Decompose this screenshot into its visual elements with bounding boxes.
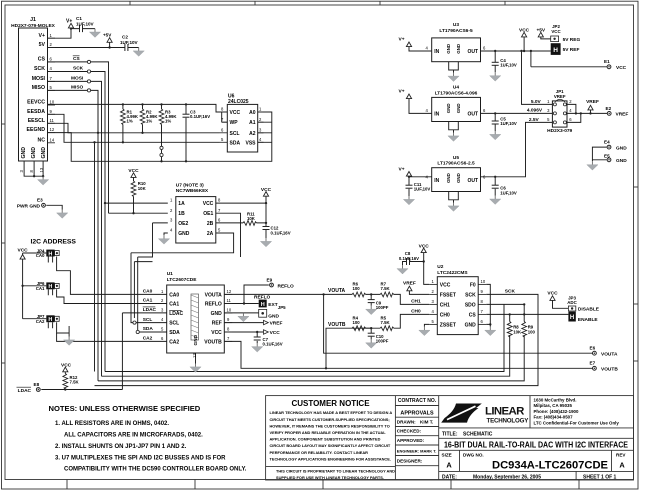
svg-text:VREF: VREF [616, 112, 629, 118]
svg-text:NOTES: UNLESS OTHERWISE SPECI: NOTES: UNLESS OTHERWISE SPECIFIED [49, 404, 201, 413]
svg-text:THIS CIRCUIT IS PROPRIETARY TO: THIS CIRCUIT IS PROPRIETARY TO LINEAR TE… [276, 468, 395, 473]
svg-text:E7: E7 [590, 361, 596, 366]
svg-text:100PF: 100PF [376, 305, 389, 310]
svg-text:10K: 10K [513, 329, 522, 334]
svg-text:7.5K: 7.5K [381, 286, 391, 291]
svg-text:ADC: ADC [567, 300, 577, 305]
svg-text:MISO: MISO [32, 85, 45, 91]
svg-text:2B: 2B [207, 221, 214, 227]
svg-text:CUSTOMER NOTICE: CUSTOMER NOTICE [291, 399, 370, 408]
svg-text:VCC: VCC [211, 330, 222, 336]
svg-text:1%: 1% [127, 119, 133, 124]
svg-text:VREF: VREF [270, 321, 283, 327]
svg-text:LT1790ACS6-2.5: LT1790ACS6-2.5 [437, 161, 475, 167]
svg-text:OUT: OUT [467, 111, 478, 117]
svg-text:VCC: VCC [270, 330, 281, 336]
svg-text:MOSI: MOSI [71, 76, 84, 82]
svg-text:V+: V+ [399, 166, 405, 172]
svg-text:1UF,10V: 1UF,10V [500, 190, 517, 195]
svg-text:LDAC: LDAC [18, 388, 32, 394]
svg-text:FSSET: FSSET [440, 292, 456, 298]
svg-text:CA0: CA0 [36, 253, 45, 258]
svg-text:WP: WP [230, 120, 239, 126]
svg-text:E1: E1 [604, 59, 610, 64]
svg-text:PWR GND: PWR GND [17, 203, 41, 209]
svg-text:VOUTB: VOUTB [328, 322, 346, 328]
svg-text:ENABLE: ENABLE [578, 317, 599, 323]
svg-text:0.1UF,16V: 0.1UF,16V [271, 230, 291, 235]
svg-text:12: 12 [50, 127, 55, 132]
svg-text:100: 100 [528, 329, 536, 334]
svg-text:GND: GND [616, 145, 627, 151]
svg-text:GND: GND [21, 147, 27, 159]
svg-text:DWG NO.: DWG NO. [463, 452, 484, 457]
svg-text:VCC: VCC [616, 65, 627, 71]
svg-text:1. ALL RESISTORS ARE IN OHMS,: 1. ALL RESISTORS ARE IN OHMS, 0402. [55, 421, 169, 427]
svg-text:CS: CS [469, 312, 477, 318]
svg-text:1%: 1% [165, 119, 171, 124]
svg-text:ZSSET: ZSSET [440, 322, 456, 328]
svg-text:F0: F0 [470, 282, 476, 288]
svg-text:CA1: CA1 [169, 302, 179, 308]
svg-text:11: 11 [50, 118, 55, 123]
svg-text:1630 McCarthy Blvd.: 1630 McCarthy Blvd. [534, 398, 577, 403]
svg-text:0.1UF,16V: 0.1UF,16V [399, 256, 419, 261]
svg-text:100PF: 100PF [376, 339, 389, 344]
svg-text:VSS: VSS [245, 140, 256, 146]
svg-text:REV: REV [616, 452, 626, 457]
svg-text:SCK: SCK [73, 66, 84, 72]
svg-text:TECHNOLOGY APPLICATIONS ENGINE: TECHNOLOGY APPLICATIONS ENGINEERING FOR … [270, 456, 391, 461]
svg-text:EXT: EXT [268, 302, 277, 308]
svg-text:5V: 5V [39, 42, 46, 48]
svg-text:1UF,10V: 1UF,10V [120, 40, 139, 45]
svg-text:CIRCUIT BOARD LAYOUT MAY SIGNI: CIRCUIT BOARD LAYOUT MAY SIGNIFICANTLY A… [270, 443, 391, 448]
svg-text:2A: 2A [207, 231, 214, 237]
svg-text:U1: U1 [167, 271, 173, 277]
svg-text:CA2: CA2 [36, 319, 45, 324]
svg-text:H: H [48, 317, 52, 323]
svg-text:CH1: CH1 [440, 302, 450, 308]
svg-text:SCL: SCL [230, 131, 240, 137]
svg-text:IN: IN [434, 111, 439, 117]
svg-text:GND: GND [456, 173, 461, 183]
svg-text:V+: V+ [399, 37, 405, 43]
svg-text:LDAC: LDAC [143, 307, 157, 313]
svg-text:IN: IN [434, 49, 439, 55]
svg-text:SCL: SCL [143, 317, 153, 323]
svg-text:IN: IN [434, 178, 439, 184]
svg-text:H: H [553, 47, 558, 54]
svg-text:OE2: OE2 [178, 221, 188, 227]
svg-text:1UF,10V: 1UF,10V [500, 121, 517, 126]
svg-text:5.0V: 5.0V [531, 99, 542, 105]
svg-text:12: 12 [227, 289, 232, 294]
svg-text:SCK: SCK [34, 66, 45, 72]
svg-text:CA2: CA2 [169, 339, 179, 345]
svg-text:14: 14 [50, 137, 55, 142]
svg-text:CA0: CA0 [143, 289, 153, 295]
svg-text:Milpitas, CA 95035: Milpitas, CA 95035 [534, 403, 573, 408]
svg-text:VOUTB: VOUTB [601, 367, 618, 373]
svg-text:E9: E9 [267, 277, 273, 282]
svg-text:H: H [261, 302, 265, 308]
svg-text:SDA: SDA [143, 326, 154, 332]
svg-text:CA2: CA2 [143, 336, 153, 342]
svg-text:LT1790ACS6-5: LT1790ACS6-5 [439, 28, 473, 34]
svg-text:1UF,10V: 1UF,10V [500, 62, 517, 67]
svg-text:CA1: CA1 [143, 298, 153, 304]
svg-text:DISABLE: DISABLE [578, 307, 600, 313]
svg-text:H: H [48, 284, 52, 290]
svg-text:VOUTA: VOUTA [601, 351, 618, 357]
svg-text:EEVCC: EEVCC [27, 100, 45, 106]
svg-text:CH0: CH0 [440, 312, 450, 318]
svg-text:VOUTB: VOUTB [204, 339, 222, 345]
svg-text:HOWEVER, IT REMAINS THE CUSTOM: HOWEVER, IT REMAINS THE CUSTOMER'S RESPO… [270, 423, 390, 428]
svg-text:REFLO: REFLO [278, 283, 295, 289]
svg-text:ALL CAPACITORS ARE IN MICROFAR: ALL CAPACITORS ARE IN MICROFARADS, 0402. [64, 433, 203, 439]
svg-text:LTC2607CDE: LTC2607CDE [167, 277, 198, 283]
svg-text:SCL: SCL [169, 321, 179, 327]
svg-text:PERFORMANCE OR RELIABILITY. C: PERFORMANCE OR RELIABILITY. CONTACT LINE… [270, 450, 369, 455]
svg-text:GND: GND [31, 147, 37, 159]
svg-text:11: 11 [227, 298, 232, 303]
svg-text:SCK: SCK [505, 288, 516, 294]
svg-text:0.1UF,16V: 0.1UF,16V [190, 114, 210, 119]
svg-text:E5: E5 [604, 154, 610, 159]
svg-text:TECHNOLOGY: TECHNOLOGY [487, 417, 530, 424]
svg-text:APPLICATION. COMPONENT SUBSTI: APPLICATION. COMPONENT SUBSTITUTION AND … [270, 437, 381, 442]
svg-text:VCC: VCC [18, 247, 29, 253]
svg-text:SCK: SCK [465, 292, 476, 298]
svg-text:A: A [446, 461, 452, 470]
svg-text:V+: V+ [39, 33, 46, 39]
svg-text:16-BIT DUAL RAIL-TO-RAIL DAC W: 16-BIT DUAL RAIL-TO-RAIL DAC WITH I2C IN… [444, 441, 628, 450]
svg-text:VERIFY PROPER AND RELIABLE OPE: VERIFY PROPER AND RELIABLE OPERATION IN … [270, 430, 387, 435]
svg-text:24LC025: 24LC025 [228, 99, 249, 105]
svg-text:0.1UF,16V: 0.1UF,16V [263, 342, 283, 347]
svg-text:SDA: SDA [169, 330, 180, 336]
svg-text:E4: E4 [604, 139, 610, 144]
svg-text:CS: CS [38, 57, 46, 63]
svg-text:OE1: OE1 [203, 211, 213, 217]
svg-text:GND: GND [178, 231, 190, 237]
svg-text:H: H [48, 251, 52, 257]
svg-text:100: 100 [353, 320, 361, 325]
svg-text:GND: GND [616, 158, 627, 164]
svg-text:VCC: VCC [61, 362, 72, 368]
svg-text:SDA: SDA [230, 140, 241, 146]
svg-text:10K: 10K [138, 186, 147, 191]
svg-text:REFLO: REFLO [205, 302, 222, 308]
svg-text:GND: GND [41, 147, 47, 159]
svg-text:100: 100 [353, 286, 361, 291]
svg-text:MOSI: MOSI [32, 76, 46, 82]
svg-text:CIRCUIT THAT MEETS CUSTOMER-SU: CIRCUIT THAT MEETS CUSTOMER-SUPPLIED SPE… [270, 417, 390, 422]
svg-text:1%: 1% [146, 119, 152, 124]
svg-text:CA1: CA1 [36, 286, 45, 291]
svg-text:LT1790ACS6-4.096: LT1790ACS6-4.096 [435, 90, 478, 96]
svg-text:EEGND: EEGND [27, 127, 46, 133]
svg-text:OUT: OUT [467, 178, 478, 184]
svg-text:NC7WB66K8X: NC7WB66K8X [176, 188, 209, 194]
svg-text:TITLE:: TITLE: [442, 432, 458, 438]
svg-text:U2: U2 [437, 264, 443, 270]
svg-text:NC: NC [38, 137, 46, 143]
svg-text:VOUTA: VOUTA [328, 288, 346, 294]
svg-text:E3: E3 [37, 198, 43, 203]
svg-text:GND: GND [268, 314, 279, 320]
svg-text:VREF: VREF [554, 94, 566, 99]
svg-text:LINEAR TECHNOLOGY HAS MADE A B: LINEAR TECHNOLOGY HAS MADE A BEST EFFORT… [270, 410, 393, 415]
svg-text:GND: GND [446, 173, 451, 183]
svg-text:JP5: JP5 [278, 305, 286, 310]
svg-text:VCC: VCC [551, 29, 561, 34]
svg-text:ENGINEER: MARK T.: ENGINEER: MARK T. [397, 448, 437, 453]
svg-text:4.096V: 4.096V [527, 108, 543, 114]
svg-text:LINEAR: LINEAR [485, 406, 524, 418]
svg-text:CONTRACT NO.: CONTRACT NO. [398, 398, 437, 404]
svg-text:2.5V: 2.5V [529, 117, 540, 123]
svg-text:H: H [570, 315, 574, 321]
svg-text:VCC: VCC [440, 282, 451, 288]
svg-text:CS: CS [73, 56, 80, 62]
svg-text:E6: E6 [590, 346, 596, 351]
svg-text:A: A [619, 461, 625, 470]
svg-text:SDO: SDO [465, 302, 476, 308]
svg-text:COMPATIBILITY WITH THE DC590 C: COMPATIBILITY WITH THE DC590 CONTROLLER … [64, 467, 247, 473]
svg-text:CHECKED:: CHECKED: [397, 429, 422, 434]
svg-text:VOUTA: VOUTA [205, 292, 223, 298]
svg-text:VCC: VCC [203, 201, 214, 207]
svg-text:SIZE: SIZE [442, 452, 452, 457]
svg-text:C2: C2 [122, 35, 128, 40]
svg-text:13: 13 [39, 167, 44, 172]
svg-text:VCC: VCC [230, 110, 241, 116]
svg-text:HD2X3-079: HD2X3-079 [547, 128, 572, 134]
svg-text:1B: 1B [178, 211, 185, 217]
svg-text:5V REF: 5V REF [563, 47, 580, 53]
svg-text:KIM T.: KIM T. [420, 419, 433, 424]
svg-text:E8: E8 [34, 382, 40, 387]
svg-text:REF: REF [212, 321, 222, 327]
svg-text:+5V: +5V [103, 33, 112, 38]
svg-text:SHEET 1 OF 1: SHEET 1 OF 1 [583, 474, 617, 480]
svg-text:Monday, September 26, 2005: Monday, September 26, 2005 [473, 474, 541, 480]
svg-text:5V REG: 5V REG [563, 37, 581, 43]
svg-text:OUT: OUT [467, 49, 478, 55]
svg-text:U5: U5 [453, 155, 459, 161]
svg-text:U3: U3 [453, 22, 459, 28]
svg-text:EESCL: EESCL [28, 118, 46, 124]
svg-text:U4: U4 [453, 85, 459, 91]
svg-text:DRAWN:: DRAWN: [397, 419, 416, 424]
svg-text:LTC Confidential-For Customer: LTC Confidential-For Customer Use Only [534, 420, 620, 425]
svg-text:10K: 10K [247, 216, 256, 221]
svg-text:1UF,10V: 1UF,10V [414, 187, 431, 192]
svg-text:APPROVED:: APPROVED: [397, 438, 425, 443]
svg-text:SCHEMATIC: SCHEMATIC [463, 432, 493, 438]
svg-text:MISO: MISO [71, 85, 84, 91]
svg-text:GND: GND [465, 322, 477, 328]
svg-text:U7 (NOTE 3): U7 (NOTE 3) [176, 182, 204, 188]
svg-text:1A: 1A [178, 201, 185, 207]
svg-text:EESDA: EESDA [27, 109, 45, 115]
svg-text:10: 10 [227, 308, 232, 313]
svg-text:A0: A0 [249, 110, 256, 116]
svg-text:V+: V+ [399, 89, 405, 95]
svg-text:13: 13 [192, 353, 197, 358]
svg-text:GND: GND [456, 44, 461, 54]
svg-text:1UF,10V: 1UF,10V [76, 21, 95, 26]
svg-text:A1: A1 [249, 120, 256, 126]
svg-text:DATE:: DATE: [442, 474, 457, 480]
svg-text:2. INSTALL SHUNTS ON JP1-JP7: 2. INSTALL SHUNTS ON JP1-JP7 PIN 1 AND 2… [55, 444, 187, 450]
svg-text:3. U7 MULTIPLEXES THE SPI AND: 3. U7 MULTIPLEXES THE SPI AND I2C BUSSES… [55, 455, 226, 461]
svg-text:J1: J1 [30, 17, 36, 23]
svg-text:A2: A2 [249, 131, 256, 137]
svg-text:GND: GND [193, 334, 199, 345]
svg-text:Phone: (408)432-1900: Phone: (408)432-1900 [534, 409, 579, 414]
svg-text:C1: C1 [76, 16, 82, 21]
svg-text:CH0: CH0 [411, 309, 421, 315]
svg-text:HD2X7-079-MOLEX: HD2X7-079-MOLEX [11, 23, 56, 29]
svg-text:GND: GND [446, 44, 451, 54]
svg-text:10: 10 [481, 279, 486, 284]
svg-text:SUPPLIED FOR USE WITH LINEAR T: SUPPLIED FOR USE WITH LINEAR TECHNOLOGY … [276, 475, 384, 480]
svg-text:E2: E2 [606, 106, 612, 111]
svg-text:CH1: CH1 [411, 299, 421, 305]
svg-text:LTC2422CMS: LTC2422CMS [437, 270, 468, 276]
svg-text:V+: V+ [66, 19, 72, 25]
svg-text:GND: GND [211, 311, 223, 317]
svg-text:CA0: CA0 [169, 292, 179, 298]
svg-text:APPROVALS: APPROVALS [400, 411, 434, 417]
svg-text:7.5K: 7.5K [381, 320, 391, 325]
svg-text:LDAC: LDAC [169, 311, 183, 317]
svg-text:10: 10 [50, 100, 55, 105]
svg-text:Fax: (408)434-0507: Fax: (408)434-0507 [534, 415, 574, 420]
svg-text:7.5K: 7.5K [70, 380, 80, 385]
svg-text:GND: GND [446, 103, 451, 113]
svg-text:GND: GND [456, 103, 461, 113]
svg-text:DESIGNER:: DESIGNER: [397, 459, 423, 464]
svg-text:DC934A-LTC2607CDE: DC934A-LTC2607CDE [492, 459, 608, 471]
svg-text:VREF: VREF [586, 99, 599, 105]
svg-text:I2C ADDRESS: I2C ADDRESS [31, 239, 77, 246]
